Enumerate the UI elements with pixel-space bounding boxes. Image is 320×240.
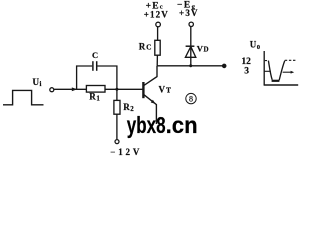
collector bus wire xyxy=(157,65,223,67)
input pulse waveform symbol xyxy=(3,90,44,104)
svg-text:8: 8 xyxy=(189,95,193,104)
wire C loop left xyxy=(77,66,93,89)
-12V terminal circle xyxy=(115,140,119,144)
emitter arrowhead xyxy=(151,100,156,104)
svg-text:RC: RC xyxy=(139,42,153,52)
wire +12V to RC xyxy=(157,27,159,41)
svg-text:−12V: −12V xyxy=(110,147,142,157)
node junction R1/R2/base xyxy=(115,88,118,91)
wire R2 to -12V terminal xyxy=(116,114,118,139)
arrowhead on input wire xyxy=(72,87,77,91)
waveform bottom level xyxy=(272,80,280,82)
junction diode/bus xyxy=(189,64,192,67)
waveform rising edge xyxy=(279,61,285,81)
resistor R1 body xyxy=(86,86,105,93)
svg-text:.cn: .cn xyxy=(166,112,198,138)
+12V terminal circle xyxy=(156,22,161,27)
svg-text:C: C xyxy=(92,50,98,60)
wire RC to bus xyxy=(156,55,158,66)
U0 graph axes xyxy=(264,51,299,85)
wire input to base xyxy=(54,88,143,90)
transistor VT emitter lead xyxy=(144,95,157,124)
svg-text:VT: VT xyxy=(159,84,173,94)
waveform falling edge xyxy=(268,61,272,80)
capacitor C1 plates xyxy=(92,61,94,71)
+3V terminal circle xyxy=(189,22,193,26)
wire to R2 xyxy=(116,89,118,100)
input terminal circle xyxy=(50,88,54,92)
svg-text:+3V: +3V xyxy=(179,8,199,18)
arrow tip on 3 level xyxy=(291,71,295,74)
output terminal dot xyxy=(222,64,226,68)
diode VD stem wire xyxy=(190,27,192,66)
waveform dashed 12 level left xyxy=(265,60,269,62)
resistor R2 body xyxy=(114,100,120,114)
wire C loop right xyxy=(97,66,117,89)
circled 8 figure mark xyxy=(186,93,196,103)
diode VD cathode bar xyxy=(186,45,195,47)
svg-text:VD: VD xyxy=(197,43,209,53)
waveform dashed 12 level right xyxy=(285,59,297,61)
resistor RC body xyxy=(155,40,160,55)
svg-text:ybx8: ybx8 xyxy=(127,112,166,138)
3 level line right with arrow xyxy=(283,71,292,73)
diode VD triangle xyxy=(185,47,195,58)
transistor VT collector lead xyxy=(144,66,157,86)
3 level line left xyxy=(264,70,270,72)
svg-text:+12V: +12V xyxy=(144,9,169,19)
svg-text:3: 3 xyxy=(244,66,249,76)
transistor VT base bar xyxy=(142,82,144,98)
